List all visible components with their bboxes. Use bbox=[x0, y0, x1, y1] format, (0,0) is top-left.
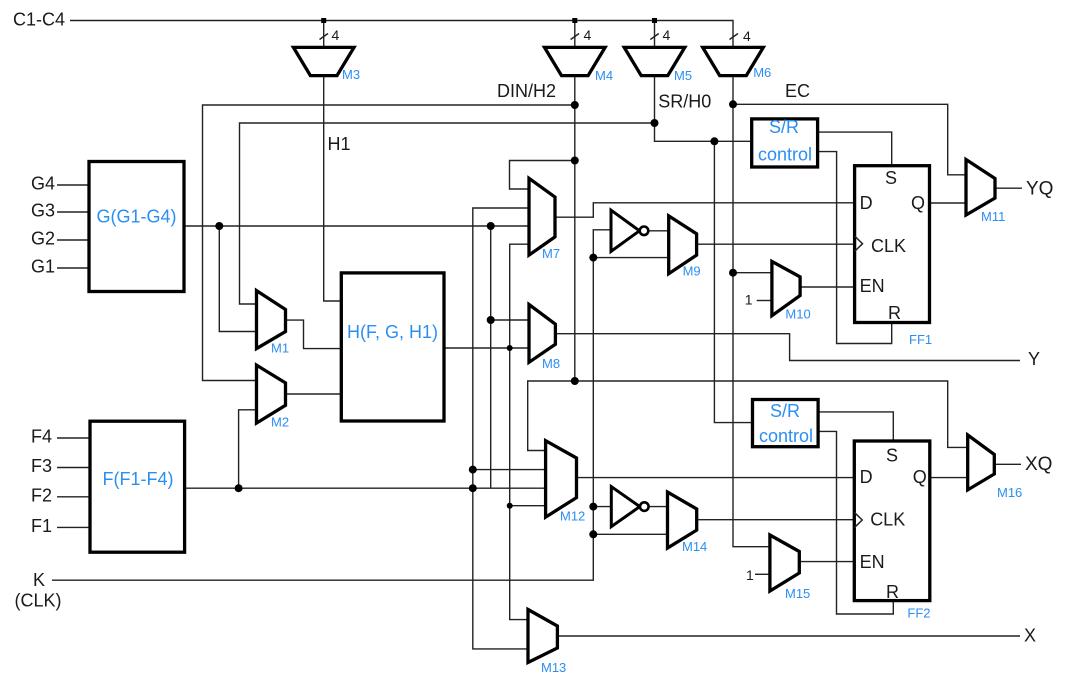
svg-text:EC: EC bbox=[785, 81, 810, 101]
svg-text:M15: M15 bbox=[785, 586, 810, 601]
svg-text:F3: F3 bbox=[31, 456, 52, 476]
svg-text:D: D bbox=[860, 467, 873, 487]
svg-text:G3: G3 bbox=[31, 201, 55, 221]
svg-text:S/R: S/R bbox=[770, 401, 800, 421]
svg-text:M11: M11 bbox=[981, 209, 1005, 224]
svg-text:M13: M13 bbox=[541, 660, 566, 675]
svg-text:F2: F2 bbox=[31, 485, 52, 505]
svg-text:M8: M8 bbox=[542, 356, 560, 371]
svg-text:G4: G4 bbox=[31, 174, 55, 194]
svg-text:control: control bbox=[759, 426, 813, 446]
svg-text:S/R: S/R bbox=[769, 117, 799, 137]
svg-text:M14: M14 bbox=[682, 539, 707, 554]
svg-text:1: 1 bbox=[745, 292, 753, 308]
svg-text:M3: M3 bbox=[342, 67, 360, 82]
svg-text:K: K bbox=[33, 570, 45, 590]
svg-text:(CLK): (CLK) bbox=[15, 591, 62, 611]
svg-text:1: 1 bbox=[746, 567, 754, 583]
svg-text:CLK: CLK bbox=[871, 236, 906, 256]
svg-text:F1: F1 bbox=[31, 516, 52, 536]
svg-text:4: 4 bbox=[663, 27, 671, 43]
svg-text:4: 4 bbox=[584, 27, 592, 43]
svg-text:M16: M16 bbox=[997, 485, 1022, 500]
svg-text:Q: Q bbox=[913, 467, 927, 487]
svg-text:M6: M6 bbox=[753, 65, 771, 80]
svg-text:G(G1-G4): G(G1-G4) bbox=[96, 206, 176, 226]
svg-text:SR/H0: SR/H0 bbox=[658, 92, 711, 112]
svg-text:Y: Y bbox=[1028, 349, 1040, 369]
svg-text:4: 4 bbox=[743, 28, 751, 44]
svg-text:M2: M2 bbox=[271, 415, 289, 430]
svg-text:R: R bbox=[888, 303, 901, 323]
svg-text:M4: M4 bbox=[595, 68, 613, 83]
svg-text:YQ: YQ bbox=[1026, 179, 1053, 200]
svg-text:DIN/H2: DIN/H2 bbox=[497, 81, 556, 101]
svg-text:FF2: FF2 bbox=[907, 606, 930, 621]
svg-text:F4: F4 bbox=[31, 427, 52, 447]
svg-text:G1: G1 bbox=[31, 257, 55, 277]
svg-text:G2: G2 bbox=[31, 229, 55, 249]
svg-text:M9: M9 bbox=[683, 264, 701, 279]
svg-text:M5: M5 bbox=[674, 68, 692, 83]
svg-text:XQ: XQ bbox=[1025, 454, 1052, 475]
svg-text:EN: EN bbox=[860, 552, 885, 572]
svg-text:Q: Q bbox=[911, 193, 925, 213]
svg-text:M7: M7 bbox=[542, 246, 560, 261]
svg-text:H(F, G, H1): H(F, G, H1) bbox=[347, 322, 438, 342]
svg-text:H1: H1 bbox=[328, 134, 351, 154]
svg-text:M10: M10 bbox=[785, 307, 810, 322]
svg-text:FF1: FF1 bbox=[909, 332, 932, 347]
svg-text:S: S bbox=[886, 446, 898, 466]
svg-text:EN: EN bbox=[860, 276, 885, 296]
svg-text:D: D bbox=[860, 193, 873, 213]
svg-text:C1-C4: C1-C4 bbox=[13, 9, 65, 29]
svg-text:M12: M12 bbox=[560, 509, 585, 524]
svg-text:X: X bbox=[1024, 626, 1036, 646]
svg-text:M1: M1 bbox=[271, 341, 289, 356]
svg-text:S: S bbox=[885, 168, 897, 188]
svg-text:4: 4 bbox=[332, 27, 340, 43]
svg-text:control: control bbox=[758, 145, 812, 165]
svg-text:R: R bbox=[886, 582, 899, 602]
svg-text:CLK: CLK bbox=[870, 510, 905, 530]
svg-text:F(F1-F4): F(F1-F4) bbox=[103, 469, 174, 489]
